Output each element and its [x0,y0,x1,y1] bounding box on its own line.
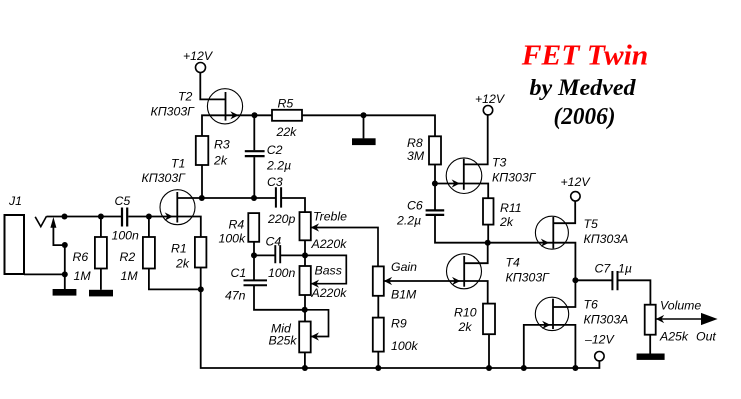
svg-text:2.2µ: 2.2µ [396,214,421,228]
svg-text:by Medved: by Medved [530,75,637,101]
svg-text:A220k: A220k [311,286,348,300]
svg-text:3M: 3M [407,149,425,163]
svg-text:R4: R4 [229,218,245,232]
svg-text:(2006): (2006) [554,103,616,130]
svg-text:–12V: –12V [584,333,616,347]
svg-text:C1: C1 [231,266,247,280]
svg-text:C5: C5 [115,194,131,208]
svg-text:КП303Г: КП303Г [492,171,537,185]
svg-text:FET Twin: FET Twin [521,39,649,71]
svg-text:R5: R5 [278,97,294,111]
svg-text:1M: 1M [74,269,92,283]
svg-text:Т1: Т1 [171,157,185,171]
svg-text:КП303А: КП303А [584,232,629,246]
svg-text:R6: R6 [73,250,89,264]
svg-text:КП303А: КП303А [584,313,629,327]
svg-text:Out: Out [696,330,716,344]
svg-text:A220k: A220k [311,237,348,251]
svg-text:R10: R10 [454,306,477,320]
svg-text:КП303Г: КП303Г [506,271,551,285]
svg-text:R2: R2 [120,250,136,264]
svg-text:C6: C6 [407,199,423,213]
svg-text:R1: R1 [171,242,187,256]
svg-text:T4: T4 [506,256,521,270]
svg-text:100k: 100k [219,232,247,246]
svg-text:B25k: B25k [269,334,298,348]
svg-text:Treble: Treble [313,210,347,224]
svg-text:Т2: Т2 [178,90,193,104]
svg-text:22k: 22k [276,125,298,139]
svg-text:R11: R11 [500,201,522,215]
svg-text:R9: R9 [391,317,407,331]
svg-text:2k: 2k [499,215,514,229]
svg-text:R3: R3 [214,138,230,152]
svg-text:B1M: B1M [391,288,417,302]
svg-text:47n: 47n [225,289,246,303]
svg-text:+12V: +12V [561,175,592,189]
svg-text:Gain: Gain [391,260,417,274]
svg-text:C3: C3 [267,175,283,189]
svg-text:T3: T3 [492,156,507,170]
svg-text:КП303Г: КП303Г [142,171,187,185]
svg-text:Bass: Bass [315,264,342,278]
svg-text:2k: 2k [213,154,228,168]
svg-text:R8: R8 [407,136,423,150]
svg-text:100n: 100n [268,266,296,280]
svg-text:C2: C2 [267,143,283,157]
svg-text:100k: 100k [391,339,419,353]
svg-text:2k: 2k [175,257,190,271]
svg-text:1µ: 1µ [618,262,632,276]
svg-text:+12V: +12V [183,49,214,63]
svg-text:A25k: A25k [659,330,689,344]
svg-text:Volume: Volume [660,299,701,313]
svg-text:2k: 2k [458,320,473,334]
svg-text:+12V: +12V [475,92,506,106]
svg-text:100n: 100n [112,229,140,243]
svg-text:C7: C7 [595,262,612,276]
svg-text:220p: 220p [267,212,296,226]
svg-text:T5: T5 [584,217,599,231]
svg-text:1M: 1M [121,269,139,283]
svg-text:КП303Г: КП303Г [151,105,196,119]
svg-text:T6: T6 [584,298,599,312]
svg-text:J1: J1 [8,194,22,208]
svg-text:C4: C4 [266,235,282,249]
svg-text:2.2µ: 2.2µ [266,159,291,173]
